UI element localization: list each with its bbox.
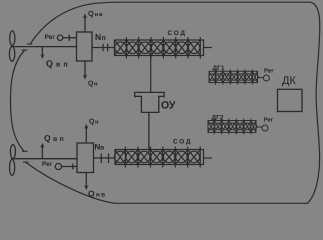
svg-text:ДГ2: ДГ2 xyxy=(212,114,224,121)
wire shaft top xyxy=(13,46,77,48)
hull diagonal end tick top xyxy=(27,43,32,45)
svg-text:ДК: ДК xyxy=(282,75,296,87)
wire to OU from top crankshaft xyxy=(150,56,152,93)
wire Qn arrow bottom (up) xyxy=(85,126,87,143)
wire Qn arrow top xyxy=(84,61,86,78)
coupling top xyxy=(92,47,115,49)
boiler DK box xyxy=(278,89,303,111)
hull diagonal end tick bottom xyxy=(23,161,28,163)
wire shaft bottom xyxy=(13,158,77,160)
propeller bottom xyxy=(10,145,15,159)
svg-text:ДГ1: ДГ1 xyxy=(213,65,225,72)
engine block bottom xyxy=(77,143,94,173)
arrow Qn top down xyxy=(83,75,87,80)
wire shaft right bottom xyxy=(204,157,213,159)
svg-text:СОД: СОД xyxy=(168,30,187,37)
diesel generator DG1 xyxy=(209,69,270,84)
arrow Qnv bottom down xyxy=(84,185,88,190)
coupling bottom xyxy=(94,157,116,159)
svg-text:СОД: СОД xyxy=(173,138,192,145)
crankshaft SOD top xyxy=(115,37,213,92)
arrowheads xyxy=(40,14,87,80)
wire DG2 to reg xyxy=(256,126,262,128)
svg-text:Nв: Nв xyxy=(95,142,105,151)
wire shaft right top xyxy=(204,47,213,49)
wire reg to engine bottom xyxy=(62,166,78,168)
bottom unit xyxy=(10,126,116,188)
arrow Qvp bottom up xyxy=(40,143,44,148)
regulator circle DG1 xyxy=(263,75,269,81)
svg-text:ОУ: ОУ xyxy=(161,99,176,111)
svg-text:Рег: Рег xyxy=(264,116,274,123)
regulator circle top xyxy=(57,35,62,40)
crankshaft SOD bottom xyxy=(114,147,212,168)
wire Qnv arrow top xyxy=(84,16,86,33)
arrow Qvp top down xyxy=(40,54,44,59)
OU unit xyxy=(135,92,164,149)
arrow Qn bottom up xyxy=(84,124,88,129)
svg-text:Рег: Рег xyxy=(45,34,56,41)
hull arc tick top xyxy=(22,49,28,51)
hull arc tick bottom xyxy=(22,150,28,152)
hull stern arc xyxy=(11,50,25,151)
wire Qvp arrow bottom xyxy=(41,145,43,159)
svg-text:Рег: Рег xyxy=(42,161,53,168)
wire DG1 to reg xyxy=(258,77,264,79)
svg-text:Qн: Qн xyxy=(88,80,98,87)
diesel generator DG2 xyxy=(208,119,268,135)
regulator circle DG2 xyxy=(262,125,268,131)
svg-text:Рег: Рег xyxy=(264,67,274,74)
propeller top xyxy=(9,31,15,61)
regulator circle bottom xyxy=(55,163,61,169)
engine block top xyxy=(77,32,93,61)
wire reg to engine top xyxy=(63,37,77,39)
wire Qnv arrow bottom (down) xyxy=(85,173,87,189)
arrow Qnv top xyxy=(83,14,87,19)
wire OU to bottom crankshaft xyxy=(148,112,150,149)
hull outline main xyxy=(26,2,320,203)
wire Qvp arrow top xyxy=(41,47,43,57)
svg-text:Qн: Qн xyxy=(89,118,99,125)
